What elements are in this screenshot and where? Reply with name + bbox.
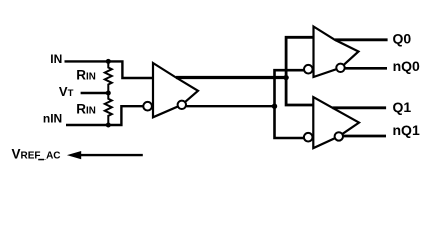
buffer U2 inverting input bubble	[304, 65, 313, 74]
wire nQ0 output	[345, 67, 387, 70]
wire node B vertical to buffer bubble inputs (nOUT fanout)	[275, 70, 305, 138]
svg-text:nQ0: nQ0	[393, 58, 420, 74]
buffer U3 output bubble on lower edge	[335, 132, 343, 140]
buffer U3 inverting input bubble	[304, 133, 313, 142]
svg-text:nQ1: nQ1	[393, 122, 420, 138]
wire nQ1 output	[343, 135, 386, 138]
buffer U2 triangle	[314, 27, 359, 78]
comparator U1 inverting input bubble	[143, 102, 152, 111]
svg-text:Q0: Q0	[393, 31, 412, 47]
svg-text:IN: IN	[50, 52, 62, 66]
junction node IN/RIN	[106, 59, 111, 64]
wire comparator OUT (thick) to node A	[176, 76, 286, 79]
svg-text:nIN: nIN	[43, 112, 62, 126]
junction node nIN/RIN	[106, 123, 111, 128]
wire nIN to comparator inverting input	[66, 106, 143, 125]
wire VT	[81, 92, 109, 94]
buffer U2 output bubble on lower edge	[336, 64, 344, 72]
buffer U3 triangle	[313, 97, 359, 148]
wire Q1 output	[333, 106, 387, 109]
wire IN to comparator non-inverting input	[65, 61, 153, 78]
arrow VREF_AC direction (left)	[79, 154, 143, 156]
junction node VT/RIN	[106, 91, 111, 96]
comparator U1 output bubble on lower edge	[178, 101, 186, 109]
junction node A dot	[283, 75, 288, 80]
svg-text:Q1: Q1	[393, 99, 412, 115]
comparator U1 triangle	[153, 63, 198, 117]
wire comparator nOUT to node B	[186, 105, 275, 107]
junction node B dot	[272, 104, 277, 109]
wire node A vertical to buffer inputs (OUT fanout)	[286, 37, 313, 105]
resistor RIN lower (zigzag)	[105, 93, 112, 125]
resistor RIN upper (zigzag)	[105, 61, 112, 93]
wire Q0 output	[335, 38, 388, 41]
